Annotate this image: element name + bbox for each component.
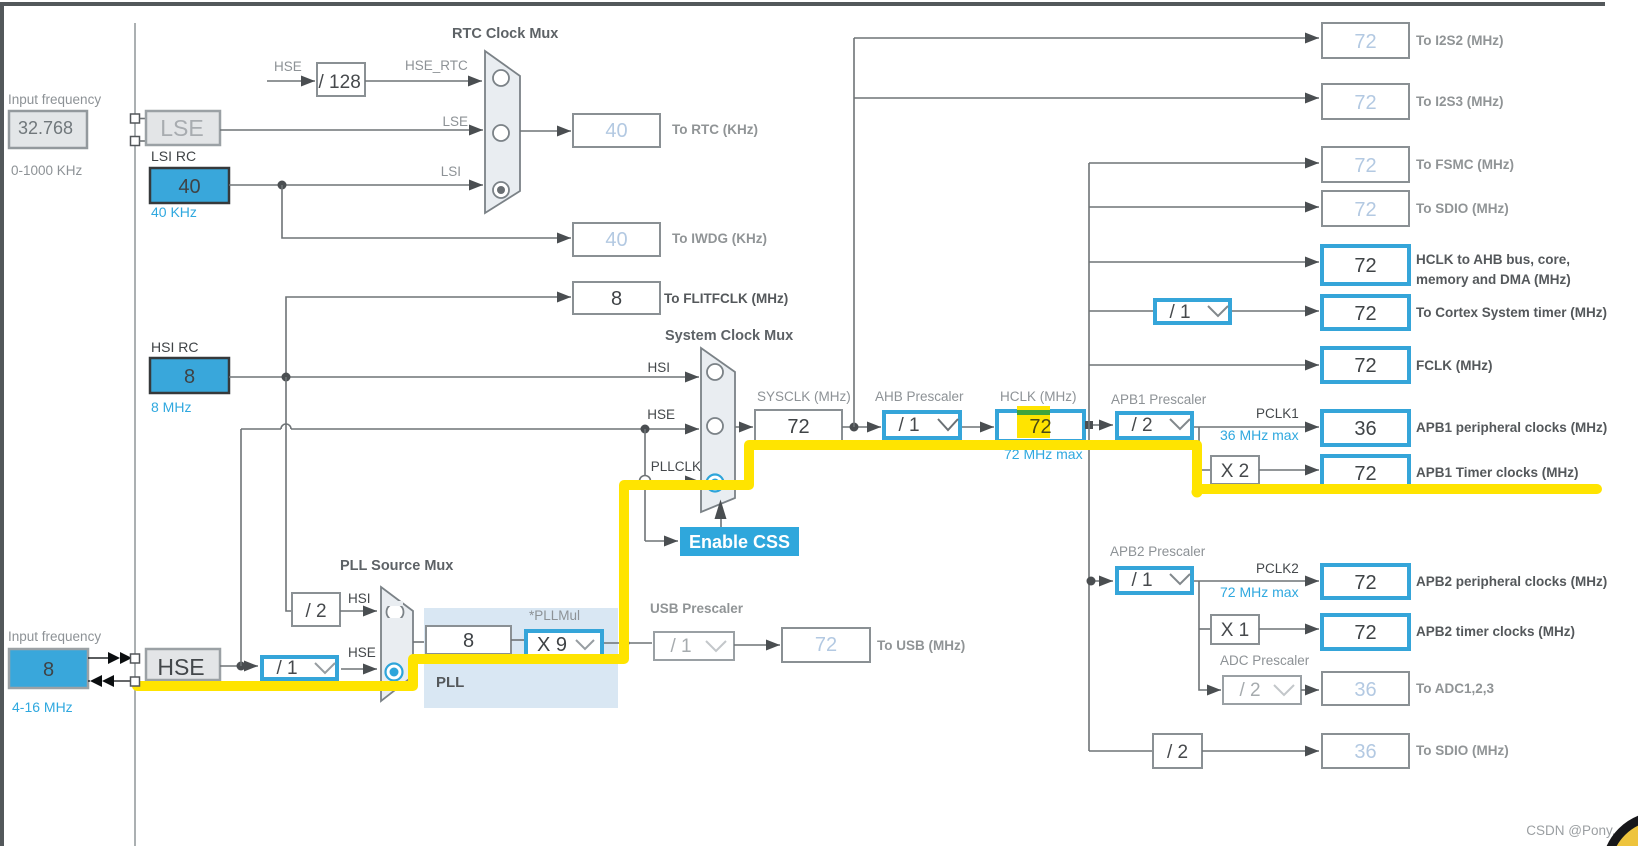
label *PLLMul (529, 608, 580, 623)
divider HSI /2 box (292, 593, 340, 626)
label LSE at mux input (442, 114, 468, 129)
wire /2 to SDIO box (1202, 750, 1319, 752)
output box HCLK to AHB (1322, 246, 1571, 287)
junction HSI branch (282, 373, 291, 382)
label HSE stub (RTC divider) (274, 59, 302, 74)
svg-text:40: 40 (178, 176, 200, 198)
wire trunk to APB2 (1089, 580, 1113, 582)
wire to FSMC (1089, 162, 1319, 164)
label 8 MHz (151, 399, 191, 415)
svg-text:FCLK (MHz): FCLK (MHz) (1416, 358, 1492, 373)
svg-text:PLLCLK: PLLCLK (651, 459, 701, 474)
svg-text:72: 72 (1354, 199, 1376, 221)
svg-text:ADC Prescaler: ADC Prescaler (1220, 653, 1310, 668)
output box To RTC (573, 114, 758, 147)
svg-text:PCLK2: PCLK2 (1256, 561, 1299, 576)
wire APB1 branch to X2 (1199, 427, 1211, 470)
wire I2S trunk vertical (853, 38, 855, 427)
PLL block background (424, 608, 618, 708)
svg-text:/ 2: / 2 (1131, 415, 1152, 436)
svg-text:HSI: HSI (647, 360, 670, 375)
label HSI RC (151, 339, 198, 355)
label 72 MHz max (APB2) (1220, 584, 1299, 600)
svg-text:/ 1: / 1 (1169, 302, 1190, 323)
oscillator HSE box (146, 649, 220, 680)
svg-text:LSE: LSE (160, 115, 203, 141)
label 40 KHz (151, 204, 197, 220)
junction HCLK output square (1085, 421, 1093, 429)
wire system mux output (735, 426, 753, 428)
svg-text:72: 72 (1354, 463, 1376, 485)
wire to SDIO (1089, 206, 1319, 208)
output box To SDIO 36 (1322, 734, 1509, 768)
wire Enable CSS to mux (715, 500, 727, 528)
input trunk line (134, 23, 136, 846)
wire HSE box to /1 (220, 665, 258, 667)
header USB Prescaler (650, 601, 744, 616)
svg-text:PLL: PLL (436, 674, 464, 691)
wire Cortex to box (1232, 310, 1319, 312)
mux System Clock Mux trapezoid (701, 348, 735, 512)
wire USB prescaler to USB box (734, 644, 780, 646)
header RTC Clock Mux (452, 26, 558, 42)
output box To FSMC (1322, 147, 1514, 182)
wire X2 to timer box (1259, 469, 1319, 471)
output box To SDIO (1322, 191, 1509, 226)
label AHB Prescaler (875, 389, 964, 404)
PLL input value box 8 (426, 626, 511, 654)
svg-text:/ 2: / 2 (305, 601, 326, 622)
svg-text:To ADC1,2,3: To ADC1,2,3 (1416, 681, 1495, 696)
svg-text:72: 72 (1354, 31, 1376, 53)
prescaler APB2 /1 dropdown (1117, 568, 1192, 593)
svg-text:LSI RC: LSI RC (151, 148, 196, 164)
svg-text:CSDN @Pony...: CSDN @Pony... (1526, 823, 1623, 838)
junction HSE output (237, 662, 246, 671)
wire RTC mux output (520, 130, 571, 132)
radio system mux PLLCLK (selected) (707, 475, 724, 492)
wire AHB to HCLK (962, 426, 994, 428)
wire HSE_RTC to RTC mux (365, 80, 482, 82)
svg-text:X 1: X 1 (1221, 620, 1250, 641)
output box FCLK (1322, 348, 1492, 382)
multiplier PLLMul X9 dropdown (526, 631, 602, 659)
header PLL Source Mux (340, 558, 453, 574)
label ADC Prescaler (1220, 653, 1310, 668)
label 36 MHz max (1220, 427, 1299, 443)
wire PLL output to USB prescaler (604, 642, 652, 644)
svg-text:AHB Prescaler: AHB Prescaler (875, 389, 964, 404)
wire HSI down to PLL /2 (286, 377, 292, 611)
value box HCLK 72 (highlighted) (997, 406, 1084, 441)
radio system mux HSE (unselected) (707, 418, 723, 434)
svg-text:72: 72 (1029, 416, 1051, 438)
svg-text:/ 128: / 128 (319, 72, 361, 93)
wire to I2S3 (854, 97, 1319, 99)
wire /1 to PLL source mux (341, 668, 377, 670)
svg-text:72: 72 (1354, 92, 1376, 114)
label HSE at PLL mux (348, 645, 376, 660)
wire SYSCLK to AHB prescaler (842, 426, 881, 428)
output box To ADC 36 (1322, 672, 1495, 705)
svg-text:RTC Clock Mux: RTC Clock Mux (452, 26, 558, 42)
svg-text:APB2 peripheral clocks (MHz): APB2 peripheral clocks (MHz) (1416, 574, 1607, 589)
output box APB1 Timer clocks 72 (1322, 456, 1579, 490)
svg-text:36 MHz max: 36 MHz max (1220, 427, 1299, 443)
highlighted path corner nub (1192, 487, 1203, 498)
multiplier X1 box (1211, 615, 1259, 644)
label 4-16 MHz (12, 699, 73, 715)
wire /2 to PLL source mux (340, 610, 377, 612)
svg-text:HSI RC: HSI RC (151, 339, 198, 355)
svg-text:To I2S2 (MHz): To I2S2 (MHz) (1416, 33, 1504, 48)
wire HSE to system mux (with hop over HSI vertical) (241, 424, 699, 429)
wire PLLCLK up to system mux (626, 481, 699, 643)
wire to FCLK (1089, 364, 1319, 366)
wire HSE vertical to system mux row (240, 429, 242, 666)
junction HSE to CSS (641, 425, 650, 434)
pin square LSE top (131, 114, 140, 123)
svg-text:X 9: X 9 (537, 634, 567, 656)
svg-text:Enable CSS: Enable CSS (689, 532, 790, 552)
radio system mux HSI (unselected) (707, 364, 723, 380)
svg-text:/ 2: / 2 (1239, 680, 1260, 701)
svg-text:USB Prescaler: USB Prescaler (650, 601, 744, 616)
watermark CSDN (1526, 823, 1623, 838)
svg-text:72: 72 (1354, 355, 1376, 377)
svg-text:LSI: LSI (441, 164, 461, 179)
wire HSE to /128 (267, 80, 315, 82)
svg-text:8 MHz: 8 MHz (151, 399, 191, 415)
node Input frequency (LSE) label (8, 92, 101, 107)
svg-text:0-1000 KHz: 0-1000 KHz (11, 163, 83, 178)
junction PLLCLK branch (623, 640, 630, 647)
wire to HCLK AHB bus (1089, 261, 1319, 263)
svg-text:APB1 Timer clocks (MHz): APB1 Timer clocks (MHz) (1416, 465, 1579, 480)
output box To USB (782, 628, 965, 662)
svg-text:To FSMC (MHz): To FSMC (MHz) (1416, 157, 1514, 172)
wire HSE in with double arrows right (88, 652, 132, 664)
wire FLITFCLK branch from HSI (286, 297, 571, 377)
pin square LSE bottom (131, 137, 140, 146)
svg-text:/ 2: / 2 (1167, 742, 1188, 763)
prescaler ADC /2 dropdown (inactive) (1223, 676, 1301, 704)
wire X1 stub (1199, 628, 1211, 630)
svg-text:36: 36 (1354, 418, 1376, 440)
output box To FLITFCLK (573, 282, 788, 314)
label APB1 Prescaler (1111, 392, 1207, 407)
pin square HSE bottom (over yellow) (131, 677, 140, 686)
svg-text:To SDIO (MHz): To SDIO (MHz) (1416, 743, 1509, 758)
LSE input frequency box 32.768 (9, 111, 87, 148)
label 0-1000 KHz (11, 163, 83, 178)
prescaler APB1 /2 dropdown (1117, 413, 1192, 438)
svg-text:To RTC (KHz): To RTC (KHz) (672, 122, 758, 137)
svg-text:*PLLMul: *PLLMul (529, 608, 580, 623)
wire APB2 branch to X1 and ADC (1199, 581, 1221, 690)
svg-text:HSE_RTC: HSE_RTC (405, 58, 468, 73)
wire trunk to SDIO /2 (1089, 750, 1153, 752)
frame left border (0, 2, 4, 846)
svg-text:To Cortex System timer (MHz): To Cortex System timer (MHz) (1416, 305, 1607, 320)
svg-text:HSE: HSE (157, 654, 204, 680)
wire 8 to PLLMul (511, 639, 524, 641)
frame top border (0, 2, 1605, 6)
junction SYSCLK I2S branch (850, 423, 859, 432)
svg-text:HSE: HSE (348, 645, 376, 660)
svg-text:memory and DMA (MHz): memory and DMA (MHz) (1416, 272, 1571, 287)
wire LSE pin stubs (140, 119, 147, 142)
svg-text:/ 1: / 1 (670, 636, 691, 657)
output box To I2S3 (1322, 84, 1504, 119)
output box To I2S2 (1322, 23, 1504, 58)
oscillator LSI RC box 40 (150, 168, 229, 203)
prescaler USB /1 dropdown (inactive) (654, 632, 734, 660)
value box SYSCLK 72 (755, 410, 842, 441)
svg-text:72: 72 (1354, 255, 1376, 277)
svg-text:36: 36 (1354, 679, 1376, 701)
svg-text:72: 72 (787, 416, 809, 438)
watermark logo circle (1606, 816, 1638, 846)
mux RTC Clock Mux trapezoid (485, 51, 520, 213)
svg-text:Input frequency: Input frequency (8, 629, 101, 644)
svg-text:PLL Source Mux: PLL Source Mux (340, 558, 453, 574)
wire LSE to RTC mux (220, 129, 483, 131)
svg-text:/ 1: / 1 (1131, 570, 1152, 591)
highlighted clock path (yellow) (137, 445, 1597, 686)
svg-text:72: 72 (1354, 572, 1376, 594)
svg-text:40 KHz: 40 KHz (151, 204, 197, 220)
svg-text:8: 8 (184, 366, 195, 388)
svg-text:72: 72 (1354, 303, 1376, 325)
svg-text:To USB (MHz): To USB (MHz) (877, 638, 965, 653)
multiplier X2 box (1211, 456, 1259, 484)
divider SDIO /2 box (1153, 734, 1202, 768)
svg-text:8: 8 (463, 630, 474, 652)
label LSI RC (151, 148, 196, 164)
wire to Cortex prescaler (1089, 310, 1153, 312)
radio RTC mux LSI (selected) (493, 182, 509, 198)
svg-text:HCLK (MHz): HCLK (MHz) (1000, 389, 1077, 404)
wire APB2 to peripheral box (1194, 580, 1319, 582)
label HSI at system mux (647, 360, 670, 375)
mux PLL Source Mux trapezoid (381, 587, 413, 701)
label HSE at system mux (647, 407, 675, 422)
wire LSI to RTC mux (229, 184, 483, 186)
junction LSI branch (278, 181, 287, 190)
prescaler HSE /1 dropdown (262, 657, 337, 679)
radio PLL mux HSE (selected) (386, 664, 403, 681)
label PLL (436, 674, 464, 691)
svg-text:HSE: HSE (274, 59, 302, 74)
pin square HSE top (131, 654, 140, 663)
radio RTC mux HSE_RTC (unselected) (493, 70, 509, 86)
svg-text:36: 36 (1354, 741, 1376, 763)
svg-text:/ 1: / 1 (276, 658, 297, 679)
wire right trunk vertical (1088, 163, 1090, 751)
svg-text:72: 72 (1354, 155, 1376, 177)
label APB2 Prescaler (1110, 544, 1206, 559)
svg-text:Input frequency: Input frequency (8, 92, 101, 107)
output box APB1 peripheral clocks 36 (1322, 411, 1607, 445)
header System Clock Mux (665, 328, 793, 344)
output box To IWDG (573, 223, 767, 256)
output box APB2 timer clocks 72 (1322, 615, 1575, 649)
svg-text:PCLK1: PCLK1 (1256, 406, 1299, 421)
wire CSS from HSE line (645, 429, 678, 541)
svg-text:HSE: HSE (647, 407, 675, 422)
prescaler AHB /1 dropdown (884, 412, 960, 438)
hop circle CSS over PLLCLK wire (640, 476, 651, 487)
svg-text:To SDIO (MHz): To SDIO (MHz) (1416, 201, 1509, 216)
svg-text:/ 1: / 1 (898, 415, 919, 436)
svg-text:72: 72 (1354, 622, 1376, 644)
wire PLL mux output (413, 641, 426, 643)
junction APB2 (1087, 577, 1096, 586)
svg-text:X 2: X 2 (1221, 461, 1250, 482)
label HSE_RTC (405, 58, 468, 73)
svg-text:To FLITFCLK (MHz): To FLITFCLK (MHz) (664, 291, 788, 306)
svg-text:HCLK to AHB bus, core,: HCLK to AHB bus, core, (1416, 252, 1570, 267)
svg-text:8: 8 (611, 288, 622, 310)
wire HSI to System mux (229, 376, 699, 378)
divider /128 box (317, 63, 365, 96)
svg-text:8: 8 (43, 659, 54, 681)
prescaler Cortex /1 dropdown (1155, 300, 1230, 323)
oscillator LSE box (146, 111, 220, 145)
svg-text:APB1 peripheral clocks (MHz): APB1 peripheral clocks (MHz) (1416, 420, 1607, 435)
svg-text:40: 40 (605, 229, 627, 251)
wire LSI to IWDG (282, 185, 571, 238)
svg-text:HSI: HSI (348, 591, 371, 606)
svg-text:4-16 MHz: 4-16 MHz (12, 699, 73, 715)
label LSI at mux input (441, 164, 461, 179)
wire X1 to timer box (1259, 628, 1319, 630)
output box APB2 peripheral clocks 72 (1322, 565, 1607, 598)
wire ADC to box (1301, 689, 1319, 691)
svg-text:32.768: 32.768 (18, 118, 73, 138)
label PCLK1 (1256, 406, 1299, 421)
svg-text:System Clock Mux: System Clock Mux (665, 328, 793, 344)
oscillator HSI RC box 8 (150, 358, 229, 393)
svg-text:APB2 timer clocks (MHz): APB2 timer clocks (MHz) (1416, 624, 1575, 639)
svg-text:APB2 Prescaler: APB2 Prescaler (1110, 544, 1206, 559)
svg-text:APB1 Prescaler: APB1 Prescaler (1111, 392, 1207, 407)
svg-text:To IWDG (KHz): To IWDG (KHz) (672, 231, 767, 246)
label 72 MHz max (HCLK) (1004, 446, 1083, 462)
svg-text:72 MHz max: 72 MHz max (1220, 584, 1299, 600)
svg-text:To I2S3 (MHz): To I2S3 (MHz) (1416, 94, 1504, 109)
node Input frequency (HSE) label (8, 629, 101, 644)
label HCLK (MHz) (1000, 389, 1077, 404)
svg-text:72: 72 (815, 634, 837, 656)
output box To Cortex System timer (1322, 296, 1607, 329)
wire to I2S2 (854, 37, 1319, 39)
HSE input frequency box 8 (9, 649, 88, 688)
button Enable CSS (680, 527, 799, 556)
svg-text:SYSCLK (MHz): SYSCLK (MHz) (757, 389, 851, 404)
wire APB1 to peripheral box (1194, 426, 1319, 428)
radio RTC mux LSE (unselected) (493, 125, 509, 141)
wire HCLK to APB1 prescaler (1093, 424, 1113, 426)
svg-text:40: 40 (605, 120, 627, 142)
label PLLCLK (651, 459, 701, 474)
label SYSCLK (MHz) (757, 389, 851, 404)
label PCLK2 (1256, 561, 1299, 576)
wire HSE out with double arrows left (88, 675, 130, 687)
radio PLL mux HSI (unselected) (387, 601, 404, 623)
svg-text:LSE: LSE (442, 114, 468, 129)
label HSI at PLL mux (348, 591, 371, 606)
